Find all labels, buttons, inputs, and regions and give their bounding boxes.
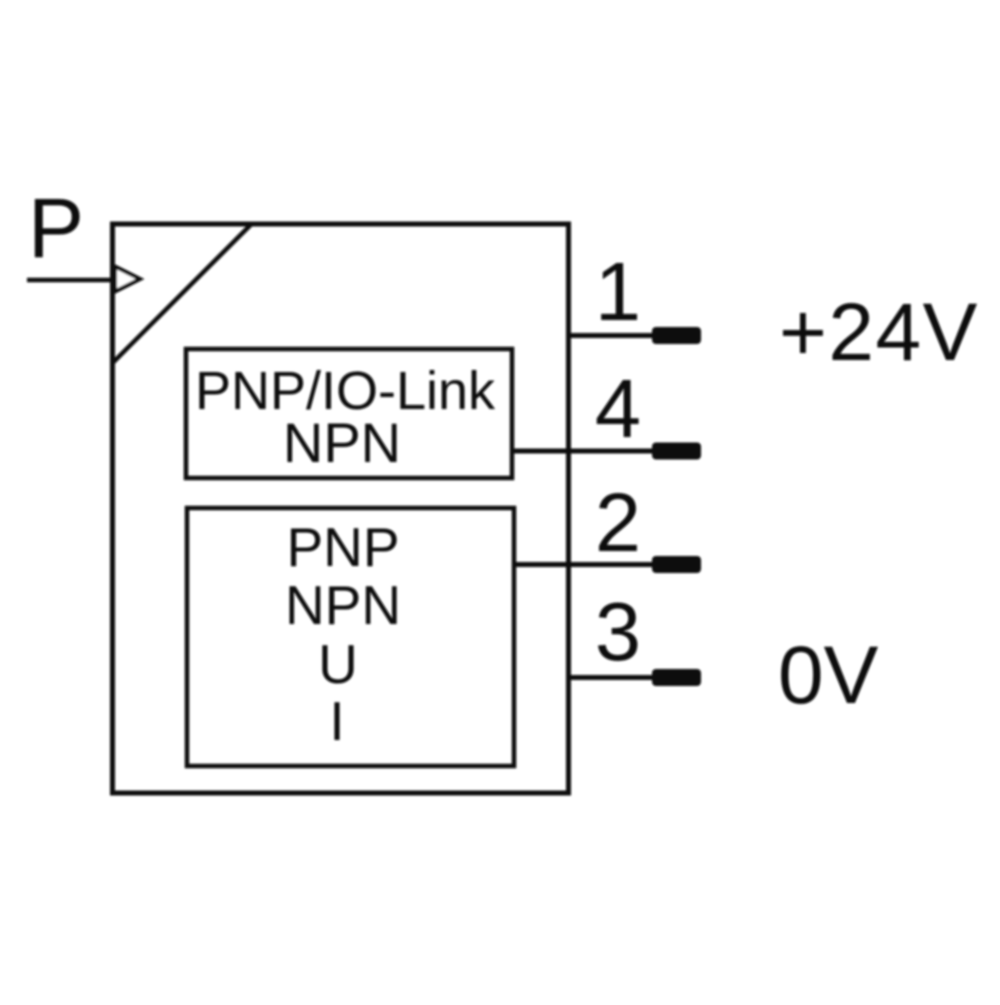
svg-text:2: 2	[595, 476, 641, 569]
svg-text:NPN: NPN	[283, 411, 401, 474]
box output stage PNP/IO-Link NPN	[186, 349, 512, 478]
svg-text:1: 1	[595, 245, 641, 338]
wire pin 3	[569, 675, 660, 680]
svg-text:4: 4	[595, 362, 641, 455]
pin 3 terminal bar	[652, 669, 701, 686]
sensor body outline U1	[113, 224, 569, 793]
pin 1 terminal bar	[652, 327, 701, 344]
box analog stage PNP NPN U I	[187, 508, 514, 766]
svg-text:3: 3	[595, 585, 641, 678]
svg-text:U: U	[318, 633, 358, 695]
wire P input line	[27, 278, 114, 283]
svg-text:PNP: PNP	[286, 516, 399, 578]
wire pin 2	[512, 562, 660, 567]
wire pin 4	[512, 449, 660, 454]
arrowhead P input	[115, 267, 140, 292]
wire pin 1	[569, 333, 660, 338]
svg-text:0V: 0V	[778, 630, 879, 721]
pin 4 terminal bar	[652, 443, 701, 460]
svg-text:NPN: NPN	[285, 574, 401, 636]
svg-text:I: I	[329, 690, 344, 752]
svg-text:+24V: +24V	[779, 287, 979, 378]
pin 2 terminal bar	[652, 556, 701, 573]
svg-text:P: P	[28, 181, 84, 275]
pressure transducer diagonal	[114, 225, 252, 363]
